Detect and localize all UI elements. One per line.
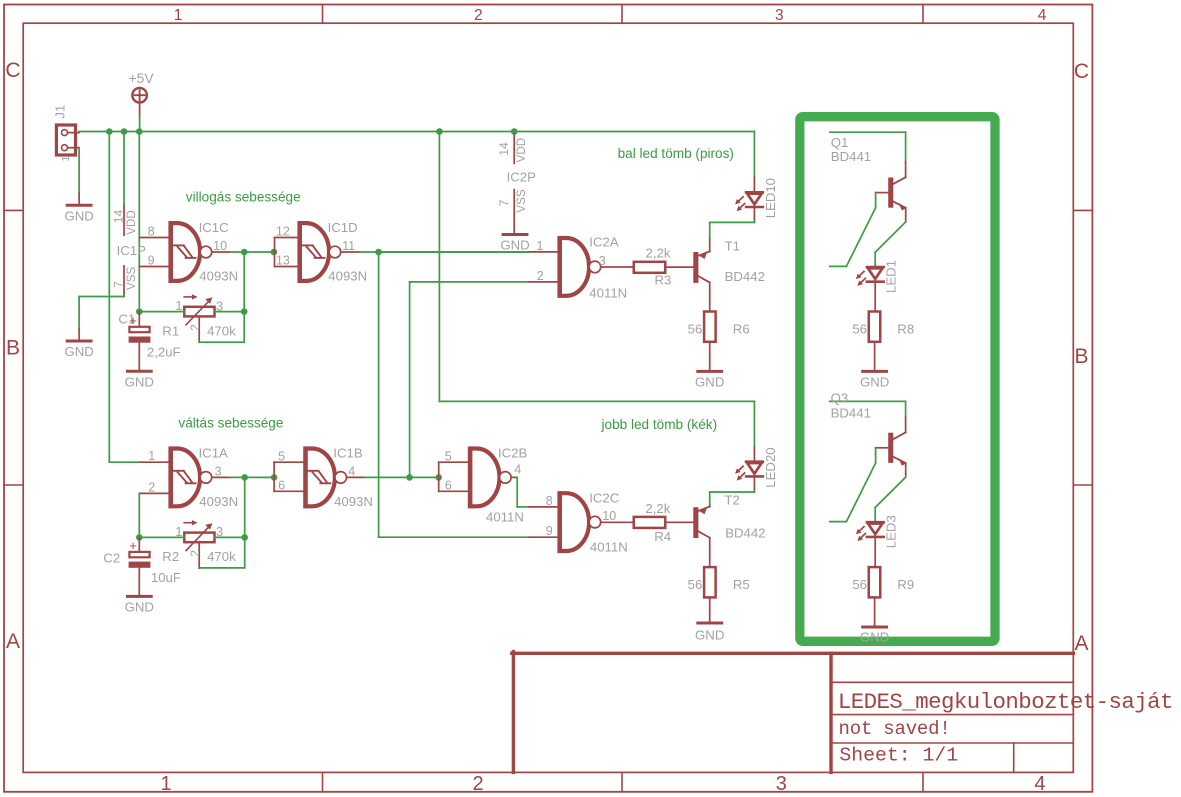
wire IC1D net to IC2A pin1 — [379, 251, 529, 253]
wire bus to jobb led — [439, 132, 754, 402]
resistor R4 2,2k — [634, 501, 694, 544]
wire C1 node to R1 — [139, 311, 244, 313]
svg-text:not saved!: not saved! — [839, 718, 951, 740]
svg-text:2: 2 — [472, 773, 483, 795]
svg-text:4: 4 — [1038, 7, 1047, 24]
svg-text:2: 2 — [537, 269, 544, 283]
svg-text:4: 4 — [1034, 773, 1045, 795]
svg-text:GND: GND — [695, 375, 724, 390]
ground GND (R5) — [695, 623, 724, 643]
svg-text:B: B — [6, 337, 20, 360]
+5V supply P1 — [129, 71, 155, 117]
wire Q1 base — [830, 193, 876, 267]
wire IC2B out to IC2C pin8 — [517, 477, 529, 507]
wire IC1B out to IC2B in — [364, 476, 438, 478]
nand gate IC2A 4011N — [529, 234, 634, 300]
svg-text:GND: GND — [860, 375, 889, 390]
svg-text:470k: 470k — [207, 323, 236, 338]
svg-text:+: + — [129, 538, 137, 553]
svg-text:10: 10 — [602, 509, 616, 523]
svg-text:GND: GND — [125, 374, 154, 389]
junction IC1D out — [375, 249, 382, 256]
wire IC1B out up to IC2A pin2 — [410, 282, 529, 478]
svg-text:R5: R5 — [733, 577, 750, 592]
svg-text:R8: R8 — [897, 321, 914, 336]
svg-text:VSS: VSS — [125, 267, 138, 290]
svg-text:BD441: BD441 — [831, 406, 871, 421]
svg-text:6: 6 — [445, 478, 452, 492]
nand gate IC1A 4093N — [139, 445, 238, 508]
svg-text:J1: J1 — [52, 105, 67, 119]
svg-text:4093N: 4093N — [199, 494, 238, 509]
nand gate IC1C 4093N — [139, 220, 238, 283]
transistor Q1 BD441 — [831, 135, 906, 211]
svg-text:10uF: 10uF — [151, 570, 181, 585]
svg-text:C2: C2 — [103, 550, 120, 565]
led LED20 — [735, 401, 778, 492]
svg-text:IC2P: IC2P — [507, 170, 537, 185]
wire IC1A out to IC1B in — [230, 476, 274, 478]
svg-text:IC2A: IC2A — [589, 234, 619, 249]
wire Q1 emitter to LED1 — [875, 208, 906, 266]
svg-text:váltás sebessége: váltás sebessége — [178, 415, 283, 430]
svg-text:56: 56 — [852, 577, 867, 592]
wire IC1A out down to R2 — [244, 477, 246, 568]
svg-text:4093N: 4093N — [328, 268, 367, 283]
svg-text:1: 1 — [60, 156, 72, 162]
label valtas sebessege — [178, 415, 283, 430]
svg-text:+5V: +5V — [129, 71, 155, 86]
svg-text:Q3: Q3 — [831, 390, 849, 405]
svg-text:3: 3 — [776, 773, 787, 795]
ground GND (IC1P) — [64, 341, 93, 359]
svg-text:IC1C: IC1C — [199, 220, 230, 235]
junction IC1A out — [241, 474, 277, 481]
svg-text:R4: R4 — [654, 529, 671, 544]
transistor Q3 BD441 — [831, 390, 907, 465]
label jobb led tomb — [601, 417, 718, 432]
svg-text:7: 7 — [497, 199, 511, 206]
wire LED20 to T2 emitter — [710, 492, 755, 504]
wire Q3 emitter to LED3 — [875, 464, 906, 522]
svg-text:9: 9 — [546, 524, 553, 538]
svg-text:GND: GND — [125, 600, 154, 615]
led LED3 — [856, 515, 899, 567]
transistor T1 BD442 — [693, 237, 765, 311]
wire bus to C1 node — [138, 132, 140, 312]
svg-text:C: C — [1074, 60, 1089, 83]
label villogas sebessege — [186, 189, 301, 204]
svg-text:4011N: 4011N — [486, 510, 524, 525]
wire bus to IC1P VDD — [123, 132, 125, 206]
svg-text:IC1A: IC1A — [199, 445, 229, 460]
svg-text:R1: R1 — [162, 323, 179, 338]
svg-text:+: + — [129, 313, 137, 328]
svg-text:1: 1 — [174, 7, 183, 24]
svg-text:LED3: LED3 — [884, 515, 899, 548]
svg-text:A: A — [6, 630, 20, 653]
connector J1 — [52, 105, 79, 162]
svg-text:5: 5 — [445, 449, 452, 463]
svg-text:3: 3 — [775, 7, 784, 24]
junction R1 nodes — [136, 308, 248, 315]
svg-text:13: 13 — [276, 254, 290, 268]
led LED10 — [735, 132, 778, 223]
svg-text:B: B — [1074, 345, 1088, 368]
svg-text:14: 14 — [497, 142, 511, 156]
resistor R3 2,2k — [634, 246, 694, 288]
svg-text:LED20: LED20 — [763, 447, 778, 487]
svg-text:1: 1 — [160, 773, 171, 795]
svg-text:R3: R3 — [655, 273, 672, 288]
svg-text:470k: 470k — [207, 549, 236, 564]
svg-text:GND: GND — [860, 630, 889, 645]
svg-text:A: A — [1074, 632, 1088, 655]
svg-text:Q1: Q1 — [831, 135, 849, 150]
junction IC1B out — [406, 474, 442, 481]
svg-text:R9: R9 — [897, 577, 914, 592]
svg-text:GND: GND — [695, 628, 724, 643]
svg-text:GND: GND — [64, 344, 93, 359]
wire bus to IC1A pin1 — [109, 132, 139, 463]
svg-text:3: 3 — [599, 254, 606, 268]
svg-text:2: 2 — [188, 550, 202, 557]
nand gate IC1B 4093N — [274, 445, 373, 508]
svg-text:6: 6 — [278, 478, 285, 492]
svg-text:C: C — [5, 59, 20, 82]
title block — [512, 652, 1173, 773]
potentiometer R2 470k — [162, 520, 236, 568]
svg-text:IC1D: IC1D — [328, 220, 358, 235]
svg-text:LEDES_megkulonboztet-saját: LEDES_megkulonboztet-saját — [838, 689, 1173, 715]
svg-text:10: 10 — [213, 239, 227, 253]
transistor T2 BD442 — [693, 493, 765, 567]
wire Q3 base — [830, 448, 876, 522]
resistor R8 56 — [852, 312, 914, 371]
svg-text:villogás sebessége: villogás sebessége — [186, 189, 301, 204]
svg-text:4: 4 — [348, 464, 355, 478]
svg-text:4011N: 4011N — [589, 286, 627, 301]
svg-text:9: 9 — [148, 254, 155, 268]
svg-text:T2: T2 — [724, 493, 739, 508]
capacitor C1 2,2uF — [118, 312, 180, 370]
svg-text:Sheet: 1/1: Sheet: 1/1 — [839, 745, 958, 767]
svg-text:GND: GND — [500, 238, 529, 253]
wire R1 wiper loop — [199, 341, 244, 343]
wire Q3 collector — [830, 401, 906, 432]
svg-text:4: 4 — [514, 463, 521, 477]
svg-text:BD442: BD442 — [725, 269, 765, 284]
wire IC1D out to IC2C pin9 — [379, 252, 529, 537]
nand gate IC2B 4011N — [439, 445, 528, 524]
wire R2 wiper loop — [199, 567, 245, 569]
svg-text:VDD: VDD — [125, 210, 138, 234]
svg-text:R6: R6 — [733, 321, 750, 336]
wire IC1A pin2 to C2 node — [138, 493, 140, 537]
svg-text:LED10: LED10 — [763, 178, 778, 218]
ground GND (J1) — [64, 205, 93, 223]
svg-text:IC2C: IC2C — [589, 490, 620, 505]
wire J1 pin2 to GND — [78, 148, 80, 203]
wire IC1P VSS to GND — [79, 297, 124, 340]
wire +5V bus — [79, 131, 754, 133]
resistor R9 56 — [852, 567, 914, 625]
svg-text:56: 56 — [852, 321, 867, 336]
wire IC1C out down to R1 — [243, 252, 245, 342]
svg-text:4093N: 4093N — [334, 494, 373, 509]
ground GND (R6) — [695, 371, 724, 389]
svg-text:2,2k: 2,2k — [646, 246, 671, 261]
svg-text:4011N: 4011N — [590, 540, 628, 555]
nand gate IC1D 4093N — [275, 220, 368, 283]
ground GND (R8) — [860, 371, 889, 389]
svg-text:2: 2 — [188, 324, 202, 331]
led LED1 — [856, 260, 899, 312]
wire +5V to bus — [139, 117, 141, 132]
label bal led tomb — [618, 146, 734, 161]
svg-text:1: 1 — [148, 449, 155, 463]
power pins IC2P — [497, 134, 536, 233]
wire Q1 collector — [830, 132, 906, 177]
ground GND (C2) — [125, 596, 154, 614]
svg-text:1: 1 — [537, 239, 544, 253]
junction R2 nodes — [136, 534, 248, 541]
svg-text:8: 8 — [148, 225, 155, 239]
svg-text:3: 3 — [215, 464, 222, 478]
svg-text:IC2B: IC2B — [498, 445, 528, 460]
svg-text:2: 2 — [148, 480, 155, 494]
wire C2 node to R2 — [139, 536, 244, 538]
svg-text:VDD: VDD — [515, 138, 528, 162]
svg-text:T1: T1 — [725, 238, 740, 253]
ground GND (IC2P) — [500, 235, 529, 253]
svg-text:56: 56 — [688, 577, 703, 592]
wire IC1C out to IC1D in — [230, 251, 275, 253]
svg-text:2,2uF: 2,2uF — [147, 345, 181, 360]
svg-text:VSS: VSS — [515, 189, 528, 212]
ground GND (R9) — [860, 627, 889, 645]
capacitor C2 10uF — [103, 537, 181, 595]
ground GND (C1) — [125, 371, 154, 389]
svg-text:IC1B: IC1B — [333, 445, 363, 460]
svg-text:BD442: BD442 — [725, 525, 765, 540]
svg-text:GND: GND — [64, 209, 93, 224]
junction bus nodes — [106, 128, 518, 135]
svg-text:7: 7 — [112, 281, 126, 288]
svg-text:2,2k: 2,2k — [645, 501, 670, 516]
svg-text:12: 12 — [276, 225, 290, 239]
svg-text:2: 2 — [474, 7, 483, 24]
power pins IC1P — [112, 206, 147, 297]
resistor R6 56 — [688, 312, 750, 370]
svg-text:8: 8 — [546, 494, 553, 508]
wire IC1D out to IC2A pin1 — [359, 251, 529, 253]
potentiometer R1 470k — [162, 294, 236, 342]
wire LED10 to T1 emitter — [710, 222, 755, 237]
svg-text:56: 56 — [688, 321, 703, 336]
resistor R5 56 — [688, 567, 750, 621]
svg-text:jobb led tömb (kék): jobb led tömb (kék) — [601, 417, 718, 432]
svg-text:IC1P: IC1P — [117, 243, 147, 258]
svg-text:bal led tömb (piros): bal led tömb (piros) — [618, 146, 734, 161]
svg-text:R2: R2 — [162, 549, 179, 564]
svg-text:LED1: LED1 — [884, 260, 899, 293]
svg-text:BD441: BD441 — [831, 149, 871, 164]
svg-text:14: 14 — [112, 210, 126, 224]
junction IC1C out — [241, 249, 277, 256]
svg-text:11: 11 — [342, 239, 355, 253]
svg-text:5: 5 — [278, 449, 285, 463]
highlight box (green) — [800, 117, 995, 642]
svg-text:4093N: 4093N — [199, 268, 238, 283]
nand gate IC2C 4011N — [529, 490, 634, 554]
